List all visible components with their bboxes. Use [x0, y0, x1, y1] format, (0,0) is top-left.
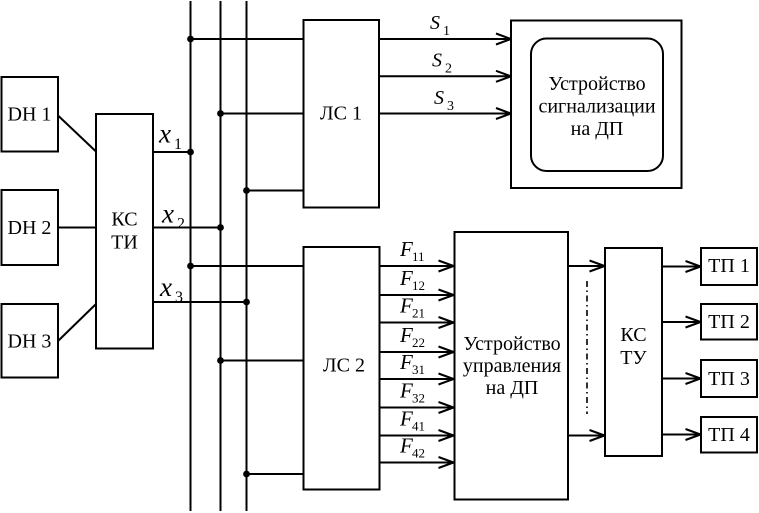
svg-text:1: 1 [443, 24, 450, 39]
wire x2 [153, 227, 221, 229]
svg-text:ТП 1: ТП 1 [708, 255, 750, 277]
svg-text:12: 12 [412, 278, 425, 293]
block KS-TU [605, 248, 662, 456]
block signaling-device outer [511, 21, 682, 189]
junction bus2-LS1 [217, 110, 224, 117]
wire bus2 to LS1 [221, 113, 304, 115]
wire bus1 to LS2 [191, 265, 304, 267]
signal F12 arrow [380, 290, 454, 301]
block TP2 [701, 304, 757, 340]
svg-text:сигнализации: сигнализации [538, 96, 655, 118]
svg-text:КС: КС [620, 324, 646, 346]
block TP1 [701, 248, 757, 285]
junction bus2-LS2 [217, 357, 224, 364]
svg-text:x: x [159, 272, 172, 302]
svg-text:Устройство: Устройство [463, 333, 560, 355]
svg-text:F: F [399, 266, 413, 290]
svg-text:S: S [434, 87, 444, 109]
svg-text:x: x [158, 119, 171, 149]
svg-text:КС: КС [111, 209, 137, 231]
svg-text:ТУ: ТУ [620, 347, 647, 369]
junction x1 [187, 149, 194, 156]
label F31 [399, 350, 425, 377]
wire x3 [153, 301, 247, 303]
svg-text:S: S [430, 12, 440, 34]
block KS-TI [96, 114, 153, 349]
wire KS-TU to TP2 arrow [662, 317, 701, 328]
wire control to KS-TU bottom arrow [568, 430, 605, 441]
svg-text:F: F [399, 434, 413, 458]
signal S3 arrow [379, 108, 511, 119]
junction x3 [243, 299, 250, 306]
dash-dot separator [586, 281, 588, 414]
signal S2 arrow [379, 71, 511, 82]
signal S1 arrow [379, 34, 511, 45]
junction bus1-LS1 [187, 36, 194, 43]
signal F42 arrow [380, 457, 454, 468]
label F22 [399, 323, 425, 350]
svg-text:ЛС 1: ЛС 1 [320, 103, 362, 125]
junction bus3-LS1 [243, 187, 250, 194]
block signaling-device inner rounded [531, 39, 663, 172]
junction bus1-LS2 [187, 263, 194, 270]
label x3 [159, 272, 183, 306]
block control-device [455, 232, 569, 500]
signal F21 arrow [380, 317, 454, 328]
wire KS-TU to TP4 arrow [662, 429, 701, 440]
svg-text:F: F [399, 294, 413, 318]
svg-text:DH 1: DH 1 [8, 104, 52, 126]
label S1 [430, 12, 450, 39]
svg-text:Устройство: Устройство [548, 73, 645, 95]
svg-text:2: 2 [177, 216, 185, 233]
wire bus1 to LS1 [191, 38, 304, 40]
svg-text:31: 31 [412, 362, 425, 377]
label x1 [158, 119, 182, 153]
svg-text:ТП 4: ТП 4 [708, 424, 750, 446]
wire bus3 to LS1 [247, 190, 304, 192]
junction x2 [217, 224, 224, 231]
signal F11 arrow [380, 261, 454, 272]
wire bus3 to LS2 [247, 473, 304, 475]
block TP4 [701, 417, 757, 453]
svg-text:42: 42 [412, 446, 425, 461]
wire x1 [153, 151, 191, 153]
label F12 [399, 266, 425, 293]
label x2 [161, 199, 185, 233]
label F41 [399, 407, 425, 434]
label F11 [399, 237, 425, 264]
svg-text:2: 2 [445, 62, 452, 77]
bus line 2 [220, 1, 222, 511]
svg-text:ТП 3: ТП 3 [708, 368, 750, 390]
label S2 [432, 50, 452, 77]
svg-text:F: F [399, 407, 413, 431]
svg-text:управления: управления [463, 355, 561, 377]
block DH3 [2, 304, 59, 378]
svg-text:ЛС 2: ЛС 2 [323, 355, 365, 377]
svg-text:x: x [161, 199, 174, 229]
signal F32 arrow [380, 402, 454, 413]
signal F41 arrow [380, 430, 454, 441]
label F21 [399, 294, 425, 321]
label F32 [399, 379, 425, 406]
wire bus2 to LS2 [221, 360, 304, 362]
svg-text:DH 3: DH 3 [8, 331, 52, 353]
block DH1 [2, 77, 59, 152]
svg-text:DH 2: DH 2 [8, 217, 52, 239]
bus line 3 [246, 1, 248, 511]
svg-text:11: 11 [412, 249, 425, 264]
label F42 [399, 434, 425, 461]
wire control to KS-TU top arrow [568, 261, 605, 272]
svg-text:F: F [399, 350, 413, 374]
svg-text:на ДП: на ДП [486, 377, 539, 399]
wire KS-TU to TP3 arrow [662, 373, 701, 384]
label S3 [434, 87, 454, 114]
svg-text:ТИ: ТИ [111, 232, 138, 254]
wire DH2 to KS-TI [58, 227, 96, 229]
svg-text:3: 3 [175, 289, 183, 306]
junction bus3-LS2 [243, 471, 250, 478]
wire DH1 to KS-TI [58, 116, 96, 152]
svg-text:ТП 2: ТП 2 [708, 311, 750, 333]
svg-text:41: 41 [412, 419, 425, 434]
block LS1 [304, 20, 380, 208]
svg-text:S: S [432, 50, 442, 72]
svg-text:F: F [399, 379, 413, 403]
svg-text:F: F [399, 323, 413, 347]
block TP3 [701, 360, 757, 397]
svg-text:3: 3 [447, 99, 454, 114]
svg-text:22: 22 [412, 335, 425, 350]
wire DH3 to KS-TI [58, 304, 96, 341]
svg-text:1: 1 [174, 136, 182, 153]
svg-text:F: F [399, 237, 413, 261]
svg-text:на ДП: на ДП [571, 118, 624, 140]
svg-text:32: 32 [412, 391, 425, 406]
bus line 1 [190, 1, 192, 511]
signal F22 arrow [380, 347, 454, 358]
block LS2 [304, 247, 380, 490]
svg-text:21: 21 [412, 306, 425, 321]
signal F31 arrow [380, 374, 454, 385]
wire KS-TU to TP1 arrow [662, 261, 701, 272]
block DH2 [2, 190, 59, 265]
label signaling-device [538, 73, 655, 140]
